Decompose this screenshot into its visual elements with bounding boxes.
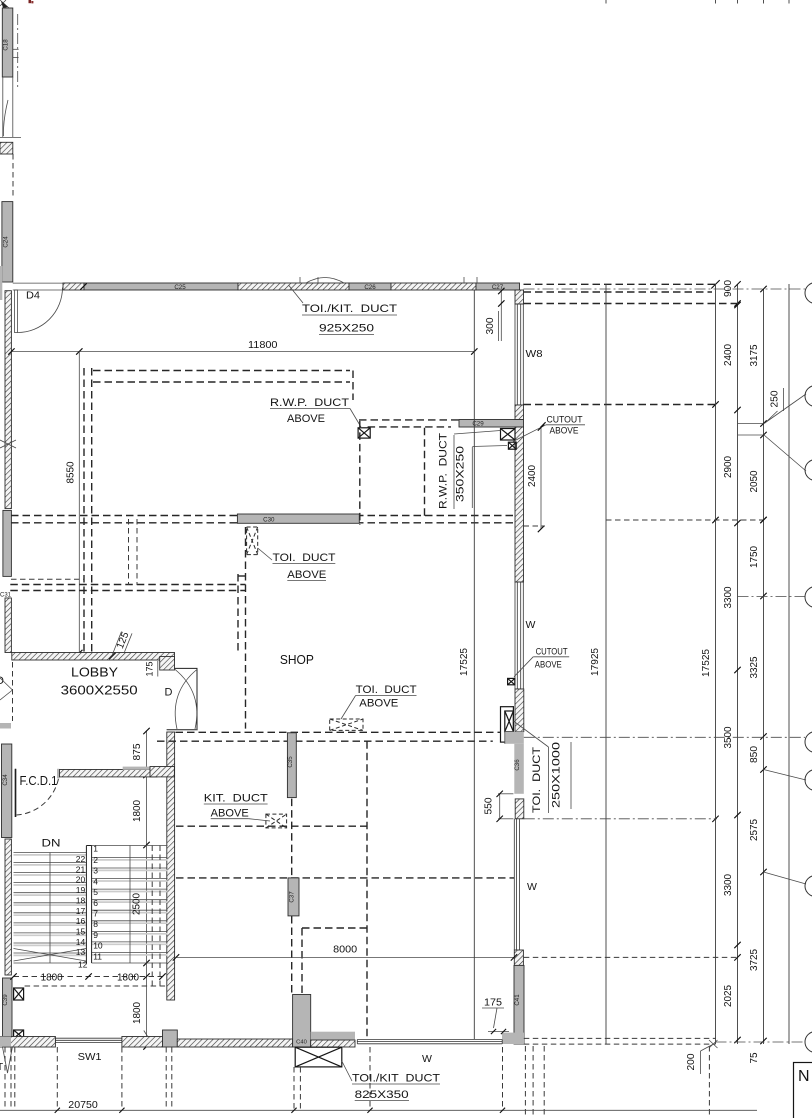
svg-text:W8: W8 bbox=[526, 348, 543, 360]
svg-text:TOI. DUCT: TOI. DUCT bbox=[356, 684, 417, 696]
dimension 2400 bbox=[540, 428, 542, 530]
door D4 swing arc bbox=[18, 288, 63, 333]
svg-text:TOI. DUCT: TOI. DUCT bbox=[273, 552, 336, 564]
svg-text:1750: 1750 bbox=[749, 546, 760, 568]
lobby top wall bbox=[12, 653, 175, 661]
long dashed line y=741 bbox=[157, 740, 493, 742]
handrail dashed bbox=[151, 846, 153, 989]
svg-text:16: 16 bbox=[76, 916, 86, 926]
svg-text:2025: 2025 bbox=[723, 985, 734, 1007]
dashed lines kit duct bbox=[176, 825, 368, 827]
column C18 bbox=[2, 8, 13, 77]
long dashed pair across plan bbox=[11, 515, 514, 517]
window W (lower) bbox=[513, 819, 515, 950]
svg-text:19: 19 bbox=[76, 885, 86, 895]
svg-text:N: N bbox=[798, 1068, 810, 1085]
dashed boundary lobby/shop bbox=[237, 574, 239, 653]
svg-text:8550: 8550 bbox=[65, 461, 77, 483]
svg-text:6: 6 bbox=[93, 898, 98, 908]
svg-text:ABOVE: ABOVE bbox=[550, 426, 579, 437]
svg-text:8: 8 bbox=[93, 919, 98, 929]
svg-text:ABOVE: ABOVE bbox=[535, 660, 562, 671]
wall hatched piece bbox=[515, 689, 524, 732]
svg-text:C18: C18 bbox=[3, 39, 10, 51]
dashed pair small verticals bbox=[128, 519, 130, 585]
svg-text:R.W.P. DUCT: R.W.P. DUCT bbox=[438, 433, 450, 509]
svg-text:1800: 1800 bbox=[132, 800, 143, 822]
dashed 8000 extension bbox=[524, 956, 738, 958]
dashed stub right of wall bbox=[524, 525, 546, 527]
leader to TOI./KIT. DUCT label bbox=[289, 285, 304, 303]
duct dashed lines bbox=[359, 419, 459, 421]
svg-text:825X350: 825X350 bbox=[355, 1089, 409, 1101]
dimension 8550 (vertical) bbox=[78, 352, 80, 654]
svg-text:2500: 2500 bbox=[132, 893, 143, 915]
wall hatched left (upper) bbox=[5, 291, 11, 509]
svg-text:20750: 20750 bbox=[68, 1099, 98, 1111]
tick bbox=[0, 137, 21, 139]
svg-text:SW1: SW1 bbox=[78, 1051, 102, 1063]
svg-text:2900: 2900 bbox=[723, 456, 734, 478]
svg-text:2050: 2050 bbox=[749, 470, 760, 492]
svg-text:TOI. DUCT: TOI. DUCT bbox=[531, 747, 543, 813]
svg-text:18: 18 bbox=[76, 895, 86, 905]
svg-text:175: 175 bbox=[144, 662, 155, 677]
svg-text:11: 11 bbox=[93, 951, 102, 961]
svg-text:W: W bbox=[527, 881, 537, 893]
bottom wall hatched 1 bbox=[0, 1037, 55, 1048]
svg-text:17525: 17525 bbox=[701, 649, 712, 677]
ticks right of C18 bbox=[13, 48, 19, 50]
svg-text:250X1000: 250X1000 bbox=[551, 742, 563, 808]
wall hatched mid bbox=[515, 427, 524, 582]
svg-text:15: 15 bbox=[76, 927, 86, 937]
svg-text:R.W.P. DUCT: R.W.P. DUCT bbox=[270, 397, 349, 409]
top stubs bbox=[605, 0, 607, 4]
svg-text:ABOVE: ABOVE bbox=[287, 413, 325, 425]
svg-text:3300: 3300 bbox=[723, 874, 734, 896]
svg-text:14: 14 bbox=[76, 937, 86, 947]
left vertical chain line bbox=[146, 731, 148, 1047]
wall cavity lines below C18 bbox=[2, 77, 4, 137]
svg-text:W: W bbox=[526, 619, 536, 631]
chain line segments A bbox=[737, 284, 739, 1044]
grid bubbles right edge bbox=[805, 283, 812, 304]
wall hatched piece below 550 bbox=[515, 799, 524, 819]
svg-text:TOI./KIT. DUCT: TOI./KIT. DUCT bbox=[302, 303, 397, 315]
svg-text:KIT. DUCT: KIT. DUCT bbox=[204, 793, 268, 805]
wall tick piece bbox=[0, 723, 11, 729]
wall corner below C27 bbox=[515, 290, 524, 304]
window W (bottom) bbox=[357, 1039, 502, 1041]
bottom dimension line bbox=[0, 1109, 757, 1111]
long dashed line y=732 bbox=[176, 731, 501, 733]
wall below lobby (vertical) bbox=[167, 732, 175, 1000]
svg-text:9: 9 bbox=[93, 930, 98, 940]
wall hatch piece bbox=[0, 142, 13, 154]
leader bbox=[258, 548, 272, 560]
door D double swing arcs bbox=[175, 669, 197, 729]
window W8 bbox=[514, 304, 516, 405]
dashed verticals below bottom wall bbox=[14, 1047, 16, 1110]
column C40 bbox=[293, 995, 311, 1048]
dashed verticals from stairs bbox=[4, 1047, 6, 1107]
stairs left flight treads bbox=[14, 852, 87, 854]
svg-text:ABOVE: ABOVE bbox=[287, 569, 326, 581]
svg-text:3300: 3300 bbox=[723, 586, 734, 608]
F.C.D.1 shutter bar bbox=[57, 769, 60, 779]
svg-text:300: 300 bbox=[485, 317, 496, 334]
extension line 17525 (shop) bbox=[473, 290, 475, 1039]
stairs right flight treads bbox=[92, 845, 168, 847]
leader bbox=[341, 696, 356, 720]
svg-text:C36: C36 bbox=[514, 759, 521, 771]
column C41 bbox=[514, 965, 524, 1044]
column C29 (grey bar) bbox=[459, 420, 524, 428]
svg-text:T: T bbox=[0, 1062, 3, 1073]
corner arrow mark top-left bbox=[0, 0, 9, 8]
bottom wall hatched 3 bbox=[177, 1039, 292, 1047]
break cross on left flight bbox=[14, 949, 87, 962]
leader bbox=[342, 1061, 352, 1081]
leader diagonals to grid bubbles bbox=[764, 394, 806, 424]
cross mark on wall bbox=[0, 440, 16, 448]
svg-text:C39: C39 bbox=[2, 994, 9, 1006]
svg-text:200: 200 bbox=[686, 1053, 697, 1070]
column C24 bbox=[2, 202, 13, 282]
small box with X bbox=[508, 442, 516, 449]
label 125 (rotated leader) bbox=[112, 632, 121, 655]
wall grey foot bbox=[502, 1033, 524, 1044]
svg-text:C24: C24 bbox=[2, 236, 9, 248]
svg-text:1: 1 bbox=[93, 844, 98, 854]
svg-text:17525: 17525 bbox=[459, 648, 470, 676]
svg-text:CUTOUT: CUTOUT bbox=[536, 647, 568, 658]
svg-text:TOI./KIT DUCT: TOI./KIT DUCT bbox=[352, 1073, 440, 1085]
svg-text:20: 20 bbox=[76, 875, 86, 885]
border grid line bbox=[788, 284, 790, 1044]
datum dash-dot lines bbox=[524, 288, 806, 290]
svg-text:13: 13 bbox=[76, 947, 86, 957]
svg-text:7: 7 bbox=[93, 909, 98, 919]
dash-dot verticals bottom right bbox=[524, 1046, 526, 1118]
F.C.D.1 swing arc (dashed) bbox=[16, 770, 60, 815]
svg-text:17: 17 bbox=[76, 906, 86, 916]
svg-text:DN: DN bbox=[42, 838, 61, 850]
tick on wall bbox=[80, 283, 86, 289]
svg-text:5: 5 bbox=[93, 887, 98, 897]
svg-text:D: D bbox=[165, 687, 173, 699]
svg-text:11800: 11800 bbox=[248, 339, 278, 351]
svg-text:2400: 2400 bbox=[527, 465, 538, 487]
svg-text:LOBBY: LOBBY bbox=[71, 666, 119, 680]
dimension 8000 bbox=[176, 956, 514, 958]
svg-text:W: W bbox=[422, 1053, 432, 1065]
svg-text:550: 550 bbox=[484, 797, 495, 814]
svg-text:C31: C31 bbox=[0, 592, 12, 599]
svg-text:C25: C25 bbox=[174, 284, 186, 291]
duct dashed box with X bbox=[266, 814, 287, 828]
column C25 (grey wall) bbox=[84, 283, 238, 290]
red revision mark bbox=[29, 0, 32, 3]
tiny ticks above wall bbox=[299, 277, 301, 283]
duct box with X bbox=[358, 428, 370, 438]
svg-text:850: 850 bbox=[749, 746, 760, 763]
svg-text:875: 875 bbox=[132, 743, 143, 760]
duct dashed vertical left pair bbox=[83, 368, 85, 654]
svg-text:22: 22 bbox=[76, 854, 86, 864]
svg-text:21: 21 bbox=[76, 864, 86, 874]
svg-text:250: 250 bbox=[770, 390, 781, 407]
leader bbox=[514, 657, 533, 677]
top wall hatched segment 1 bbox=[63, 283, 84, 290]
svg-text:D4: D4 bbox=[26, 290, 40, 302]
column C35 bbox=[287, 733, 296, 798]
svg-text:900: 900 bbox=[723, 280, 734, 297]
duct dashed line bbox=[93, 381, 350, 383]
wall face dashed bbox=[12, 154, 14, 199]
window SW1 bbox=[55, 1037, 122, 1039]
svg-text:2575: 2575 bbox=[749, 819, 760, 841]
svg-text:3: 3 bbox=[93, 866, 98, 876]
north box N bbox=[794, 1063, 812, 1118]
svg-text:1800: 1800 bbox=[41, 972, 63, 984]
leader bbox=[249, 819, 270, 821]
column marker box with X (2) bbox=[14, 1030, 24, 1039]
svg-text:C37: C37 bbox=[288, 891, 295, 903]
svg-text:10: 10 bbox=[93, 941, 103, 951]
grid line x=606 bbox=[605, 284, 607, 1044]
tick bbox=[144, 1031, 148, 1038]
svg-text:3725: 3725 bbox=[749, 949, 760, 971]
svg-text:3600X2550: 3600X2550 bbox=[61, 684, 138, 698]
grey column at stair wall bbox=[163, 1030, 178, 1047]
toilet/kitchen duct box with X bbox=[295, 1047, 342, 1067]
walk lines bbox=[49, 853, 51, 964]
top wall hatched segment 2 bbox=[238, 283, 349, 290]
door D head bbox=[175, 667, 198, 669]
dimension 11800 bbox=[11, 351, 474, 353]
svg-text:2400: 2400 bbox=[723, 344, 734, 366]
svg-text:8000: 8000 bbox=[333, 944, 357, 956]
column C27 bbox=[476, 283, 520, 290]
shop dashed boundary bbox=[245, 527, 247, 729]
exit triangle bbox=[3, 1047, 13, 1073]
wall piece bbox=[150, 767, 174, 777]
toilet duct box with X (C36 top) bbox=[501, 707, 514, 742]
column C39 bbox=[3, 978, 13, 1043]
door D leaf bbox=[196, 668, 198, 729]
door D4 opening lines bbox=[13, 282, 63, 284]
dashed line mid bbox=[524, 404, 716, 406]
svg-text:75: 75 bbox=[749, 1052, 760, 1063]
dashed pair at wall bottom bbox=[524, 1037, 716, 1039]
svg-text:2: 2 bbox=[93, 855, 98, 865]
dark edge strip left bbox=[0, 266, 2, 300]
small cutout box with X bbox=[508, 678, 515, 684]
svg-text:ABOVE: ABOVE bbox=[359, 698, 398, 710]
leader bbox=[513, 425, 546, 442]
svg-text:925X250: 925X250 bbox=[319, 323, 374, 335]
leader bbox=[350, 409, 361, 428]
duct dashed box with X bbox=[247, 527, 258, 555]
svg-text:SHOP: SHOP bbox=[280, 653, 314, 667]
svg-text:4: 4 bbox=[93, 876, 98, 886]
column C26 bbox=[349, 283, 391, 290]
bottom wall hatched 2 bbox=[122, 1037, 163, 1048]
svg-text:C26: C26 bbox=[364, 284, 376, 291]
svg-text:C40: C40 bbox=[296, 1040, 307, 1046]
dashed line bbox=[524, 303, 738, 305]
column C34 bbox=[2, 744, 12, 838]
svg-text:1800: 1800 bbox=[117, 972, 139, 984]
dashed line below bbox=[25, 985, 166, 987]
window W (upper) bbox=[514, 582, 516, 689]
svg-text:C34: C34 bbox=[2, 774, 9, 786]
F.C.D.1 leaf bbox=[14, 769, 17, 817]
lobby bottom threshold bbox=[167, 729, 198, 731]
250 gap marks bbox=[738, 423, 764, 425]
column C36 grey L bbox=[505, 732, 524, 744]
short dashed bbox=[11, 578, 84, 580]
column C37 bbox=[288, 878, 299, 916]
duct box with X bbox=[501, 429, 516, 441]
duct dashed vertical bbox=[352, 371, 354, 401]
wall hatched left (mid) bbox=[5, 598, 11, 653]
column C31 bbox=[3, 510, 12, 576]
svg-text:ABOVE: ABOVE bbox=[211, 808, 249, 820]
wall hatched below W8 bbox=[515, 405, 524, 420]
duct dashed box with X (horizontal) bbox=[330, 719, 363, 730]
leader bbox=[513, 721, 548, 747]
door D (left, lobby) dashed face bbox=[12, 662, 14, 721]
stair divider bbox=[85, 846, 87, 964]
tick on wall bbox=[109, 653, 115, 659]
top wall hatched segment 3 bbox=[391, 283, 476, 290]
door D4 leaf bbox=[15, 290, 18, 333]
column C30 grey bar bbox=[237, 514, 359, 523]
small arc above wall bbox=[306, 278, 344, 284]
svg-text:175: 175 bbox=[484, 998, 502, 1009]
wall grey band + hatch bbox=[311, 1032, 355, 1040]
dimension 550 bbox=[498, 793, 513, 795]
svg-text:F.C.D.1: F.C.D.1 bbox=[20, 773, 58, 788]
dashed line low bbox=[606, 519, 764, 521]
dashed line bbox=[524, 283, 716, 285]
wall hatched above C41 bbox=[514, 950, 523, 965]
svg-text:17925: 17925 bbox=[590, 648, 601, 676]
svg-text:3175: 3175 bbox=[749, 344, 760, 366]
dimension 1800 1800 dashed bbox=[14, 976, 163, 978]
door D swing mark bbox=[0, 678, 13, 690]
wall jog at door jamb bbox=[160, 657, 175, 671]
corner grey bbox=[0, 1037, 11, 1048]
dashed line bbox=[524, 291, 713, 293]
svg-text:C35: C35 bbox=[287, 756, 294, 768]
extension ticks bbox=[140, 775, 156, 777]
svg-text:1800: 1800 bbox=[132, 1002, 143, 1024]
svg-text:C41: C41 bbox=[514, 994, 521, 1006]
centerline dash-dot bbox=[17, 14, 19, 90]
chain line segments B bbox=[763, 289, 765, 1044]
svg-text:3325: 3325 bbox=[749, 656, 760, 678]
column marker box with X bbox=[14, 988, 24, 1000]
svg-text:350X250: 350X250 bbox=[455, 446, 467, 502]
leaders bbox=[454, 431, 501, 435]
dashed pair lobby top bbox=[10, 584, 245, 586]
dimension 300 bbox=[500, 291, 502, 342]
chain line 17525 total bbox=[715, 284, 717, 1044]
svg-text:12: 12 bbox=[78, 960, 88, 970]
duct dashed line bbox=[93, 370, 350, 372]
svg-text:C30: C30 bbox=[263, 516, 275, 523]
wall hatched left (lower) bbox=[5, 839, 11, 975]
svg-text:CUTOUT: CUTOUT bbox=[547, 415, 583, 426]
